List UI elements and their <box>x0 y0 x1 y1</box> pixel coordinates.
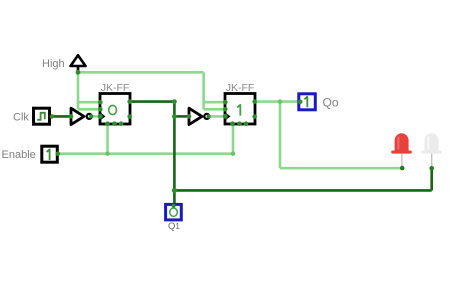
flip-flop U2 JK-FF <box>223 94 257 126</box>
node Q0 net wires (FF2 output =1) <box>255 102 402 169</box>
wire FF2 Q to Q0 output <box>255 100 299 103</box>
wire High to FF1 J <box>78 101 100 104</box>
wire High rail top <box>78 71 204 74</box>
wire branch to NOT2 input <box>174 115 189 118</box>
power High symbol <box>71 55 86 75</box>
node red LED connection <box>400 166 405 171</box>
wire white LED drop <box>430 168 433 190</box>
output Q0 <box>298 94 315 110</box>
wire Q1 vertical <box>173 102 176 206</box>
svg-text:Clk: Clk <box>13 112 29 124</box>
input Clk <box>34 108 55 124</box>
LED D1 red <box>391 133 412 167</box>
node white LED connection <box>429 166 434 171</box>
svg-text:Q1: Q1 <box>168 221 180 232</box>
wire Enable horizontal <box>58 152 233 155</box>
junction dots dark net <box>172 99 177 104</box>
wire High to FF2 K <box>204 108 225 111</box>
node Q1 net wires (FF1 output =0, dark green) <box>130 102 432 206</box>
svg-text:JK-FF: JK-FF <box>226 82 255 94</box>
svg-text:Enable: Enable <box>2 149 36 161</box>
svg-text:JK-FF: JK-FF <box>101 82 130 94</box>
wire High drop to FF2 <box>202 72 205 109</box>
node Clk net wire (logic 0, dark green) <box>50 115 71 118</box>
wire FF1 Q horizontal <box>130 100 175 103</box>
wire High riser to FF1 <box>77 72 80 109</box>
junction dot Q0 net <box>278 99 282 103</box>
wire FF2 EN riser <box>232 124 235 154</box>
pins U1 <box>98 100 103 105</box>
wire Q1 to white LED horizontal <box>174 189 431 192</box>
wire NOT1 output to FF1 clock (logic 1) <box>92 115 101 118</box>
svg-text:Qo: Qo <box>323 96 339 110</box>
node High net wires (logic 1, light green) <box>78 72 225 109</box>
node Enable net wires <box>58 124 233 154</box>
LED D2 white (off) <box>421 133 442 167</box>
pins U2 <box>223 100 228 105</box>
wire to red LED <box>280 167 402 170</box>
wire High to FF1 K <box>78 108 100 111</box>
gate NOT1 <box>69 108 94 124</box>
wire High to FF2 J <box>204 101 225 104</box>
wire Q0 drop to LED1 <box>279 102 282 169</box>
junction dots Enable net <box>105 152 109 156</box>
output Q1 <box>166 204 182 220</box>
flip-flop U1 JK-FF <box>98 94 132 126</box>
wire NOT2 output to FF2 clock (logic 1) <box>209 115 225 118</box>
svg-text:High: High <box>42 58 65 70</box>
wire FF1 EN riser <box>106 124 109 154</box>
input Enable <box>42 146 60 162</box>
gate NOT2 <box>187 108 211 124</box>
